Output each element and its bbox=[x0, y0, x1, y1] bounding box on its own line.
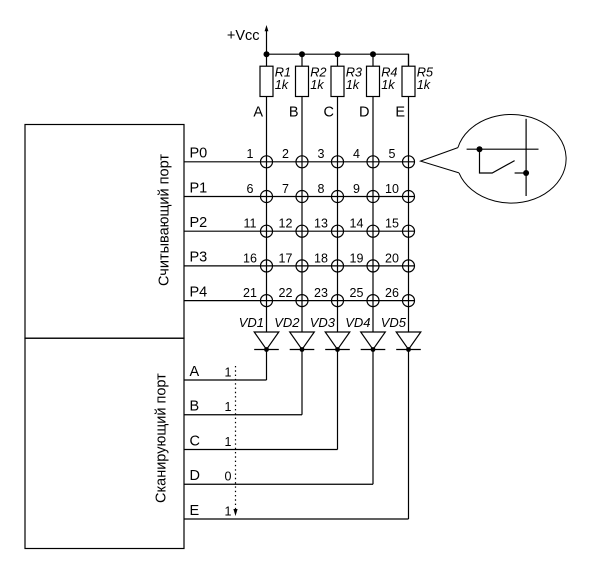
svg-text:P2: P2 bbox=[190, 215, 208, 231]
key switch 20 (crossing P3 / column E) bbox=[403, 260, 415, 272]
wire: bus stub to resistor R5 bbox=[408, 54, 410, 66]
+Vcc supply arrow bbox=[265, 25, 269, 54]
svg-text:C: C bbox=[190, 433, 200, 449]
svg-text:19: 19 bbox=[350, 251, 364, 265]
wire: scan line A bbox=[184, 379, 267, 381]
svg-text:P1: P1 bbox=[190, 180, 208, 196]
junction dot diode VD3 cathode bbox=[335, 347, 340, 352]
resistor R4 1k bbox=[367, 66, 380, 96]
svg-text:15: 15 bbox=[385, 217, 399, 231]
key switch 18 (crossing P3 / column C) bbox=[332, 260, 344, 272]
svg-text:17: 17 bbox=[279, 251, 293, 265]
diode VD5 bbox=[396, 332, 421, 350]
wire: diode VD5 cathode riser bbox=[408, 350, 410, 520]
resistor R5 1k bbox=[402, 66, 415, 96]
svg-text:P4: P4 bbox=[190, 284, 208, 300]
svg-text:1: 1 bbox=[225, 365, 232, 379]
svg-text:16: 16 bbox=[243, 251, 257, 265]
svg-text:VD4: VD4 bbox=[345, 315, 370, 330]
key switch 4 (crossing P0 / column D) bbox=[367, 156, 379, 168]
key switch 9 (crossing P1 / column D) bbox=[367, 191, 379, 203]
wire: scan line E bbox=[184, 518, 409, 520]
wire: diode VD4 cathode riser bbox=[372, 350, 374, 485]
wire: column A vertical bbox=[266, 97, 268, 333]
key switch 8 (crossing P1 / column C) bbox=[332, 191, 344, 203]
reading port box (Считывающий порт) bbox=[25, 125, 184, 339]
svg-text:D: D bbox=[190, 468, 200, 484]
svg-text:1: 1 bbox=[247, 147, 254, 161]
key switch 22 (crossing P4 / column B) bbox=[296, 295, 308, 307]
wire: diode VD1 cathode riser bbox=[266, 350, 268, 381]
key switch 23 (crossing P4 / column C) bbox=[332, 295, 344, 307]
key switch 19 (crossing P3 / column D) bbox=[367, 260, 379, 272]
wire: row P0 bbox=[184, 161, 415, 163]
svg-text:0: 0 bbox=[225, 470, 232, 484]
svg-text:+Vcc: +Vcc bbox=[227, 28, 260, 44]
svg-text:23: 23 bbox=[314, 286, 328, 300]
resistor R1 1k bbox=[260, 66, 273, 96]
diode VD4 bbox=[361, 332, 386, 350]
wire: diode VD2 cathode riser bbox=[301, 350, 303, 415]
junction dot on Vcc bus, column D bbox=[370, 51, 376, 57]
svg-text:A: A bbox=[253, 105, 263, 121]
svg-text:25: 25 bbox=[350, 286, 364, 300]
wire: diode VD3 cathode riser bbox=[337, 350, 339, 450]
wire: scan line C bbox=[184, 449, 338, 451]
svg-text:8: 8 bbox=[318, 182, 325, 196]
Vcc bus wire bbox=[267, 54, 409, 66]
svg-text:2: 2 bbox=[282, 147, 289, 161]
wire: column B vertical bbox=[301, 97, 303, 333]
junction dot on Vcc bus, column A bbox=[264, 51, 270, 57]
svg-text:1k: 1k bbox=[346, 77, 360, 92]
key switch 21 (crossing P4 / column A) bbox=[261, 295, 273, 307]
junction dot diode VD1 cathode bbox=[264, 347, 269, 352]
key switch 25 (crossing P4 / column D) bbox=[367, 295, 379, 307]
junction dot on Vcc bus, column B bbox=[299, 51, 305, 57]
svg-text:20: 20 bbox=[385, 251, 399, 265]
balloon node dot left bbox=[477, 146, 483, 152]
svg-text:5: 5 bbox=[389, 147, 396, 161]
key switch 7 (crossing P1 / column B) bbox=[296, 191, 308, 203]
svg-text:D: D bbox=[359, 105, 369, 121]
svg-text:14: 14 bbox=[350, 217, 364, 231]
svg-text:6: 6 bbox=[247, 182, 254, 196]
key switch 1 (crossing P0 / column A) bbox=[261, 156, 273, 168]
resistor R2 1k bbox=[296, 66, 309, 96]
key switch 3 (crossing P0 / column C) bbox=[332, 156, 344, 168]
svg-text:B: B bbox=[289, 105, 299, 121]
wire: row P1 bbox=[184, 196, 415, 198]
svg-text:VD5: VD5 bbox=[381, 315, 407, 330]
resistor R3 1k bbox=[331, 66, 344, 96]
svg-text:1k: 1k bbox=[381, 77, 395, 92]
key switch 11 (crossing P2 / column A) bbox=[261, 225, 273, 237]
wire: bus stub to resistor R2 bbox=[301, 54, 303, 66]
svg-text:21: 21 bbox=[243, 286, 257, 300]
key switch 26 (crossing P4 / column E) bbox=[403, 295, 415, 307]
svg-text:1: 1 bbox=[225, 400, 232, 414]
wire: column D vertical bbox=[372, 97, 374, 333]
svg-text:1: 1 bbox=[225, 504, 232, 518]
junction dot diode VD2 cathode bbox=[300, 347, 305, 352]
svg-text:18: 18 bbox=[314, 251, 328, 265]
balloon switch contact (open) bbox=[480, 149, 515, 173]
key switch 6 (crossing P1 / column A) bbox=[261, 191, 273, 203]
svg-text:E: E bbox=[190, 503, 200, 519]
svg-text:VD2: VD2 bbox=[274, 315, 300, 330]
svg-text:3: 3 bbox=[318, 147, 325, 161]
key switch 5 (crossing P0 / column E) bbox=[403, 156, 415, 168]
svg-text:Сканирующий порт: Сканирующий порт bbox=[154, 373, 170, 503]
key switch 13 (crossing P2 / column C) bbox=[332, 225, 344, 237]
wire: column E vertical bbox=[408, 97, 410, 333]
wire: balloon column line bbox=[525, 119, 527, 196]
svg-text:VD1: VD1 bbox=[239, 315, 264, 330]
svg-text:B: B bbox=[190, 399, 200, 415]
svg-text:A: A bbox=[190, 364, 200, 380]
svg-text:10: 10 bbox=[385, 182, 399, 196]
svg-text:P3: P3 bbox=[190, 250, 208, 266]
scanning port box (Сканирующий порт) bbox=[25, 338, 184, 548]
svg-text:C: C bbox=[324, 105, 334, 121]
diode VD2 bbox=[290, 332, 315, 350]
svg-text:11: 11 bbox=[244, 217, 257, 231]
key switch 2 (crossing P0 / column B) bbox=[296, 156, 308, 168]
key switch 10 (crossing P1 / column E) bbox=[403, 191, 415, 203]
scan order dotted arrow bbox=[233, 366, 237, 516]
svg-text:P0: P0 bbox=[190, 146, 208, 162]
wire: scan line D bbox=[184, 483, 373, 485]
key switch 17 (crossing P3 / column B) bbox=[296, 260, 308, 272]
svg-text:1k: 1k bbox=[310, 77, 324, 92]
svg-text:1k: 1k bbox=[417, 77, 431, 92]
svg-text:12: 12 bbox=[279, 217, 293, 231]
diode VD3 bbox=[325, 332, 350, 350]
svg-text:26: 26 bbox=[385, 286, 399, 300]
wire: scan line B bbox=[184, 414, 302, 416]
key switch 16 (crossing P3 / column A) bbox=[261, 260, 273, 272]
wire: row P2 bbox=[184, 230, 415, 232]
balloon node dot right bbox=[523, 170, 529, 176]
wire: row P3 bbox=[184, 265, 415, 267]
wire: balloon row line bbox=[467, 148, 539, 150]
svg-text:7: 7 bbox=[282, 182, 289, 196]
svg-text:13: 13 bbox=[314, 217, 328, 231]
svg-text:VD3: VD3 bbox=[310, 315, 336, 330]
svg-text:1: 1 bbox=[225, 435, 232, 449]
wire: bus stub to resistor R4 bbox=[372, 54, 374, 66]
svg-text:1k: 1k bbox=[275, 77, 289, 92]
junction dot diode VD5 cathode bbox=[406, 347, 411, 352]
svg-text:22: 22 bbox=[279, 286, 293, 300]
wire: column C vertical bbox=[337, 97, 339, 333]
junction dot on Vcc bus, column C bbox=[335, 51, 341, 57]
junction dot diode VD4 cathode bbox=[371, 347, 376, 352]
svg-text:E: E bbox=[395, 105, 405, 121]
key switch 14 (crossing P2 / column D) bbox=[367, 225, 379, 237]
key switch 15 (crossing P2 / column E) bbox=[403, 225, 415, 237]
svg-text:9: 9 bbox=[353, 182, 360, 196]
svg-text:Считывающий порт: Считывающий порт bbox=[157, 154, 173, 286]
wire: bus stub to resistor R3 bbox=[337, 54, 339, 66]
detail balloon (key switch close-up) bbox=[421, 114, 567, 203]
key switch 12 (crossing P2 / column B) bbox=[296, 225, 308, 237]
svg-text:4: 4 bbox=[353, 147, 360, 161]
wire: row P4 bbox=[184, 300, 415, 302]
wire: bus stub to resistor R1 bbox=[266, 54, 268, 66]
diode VD1 bbox=[254, 332, 279, 350]
